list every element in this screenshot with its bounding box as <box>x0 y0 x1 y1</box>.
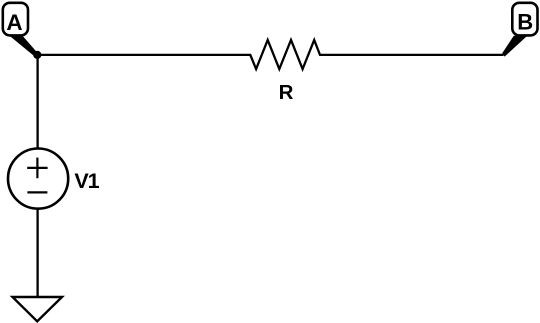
svg-text:R: R <box>279 81 294 104</box>
svg-text:V1: V1 <box>74 169 99 193</box>
svg-text:B: B <box>517 10 533 35</box>
svg-text:A: A <box>6 10 22 35</box>
